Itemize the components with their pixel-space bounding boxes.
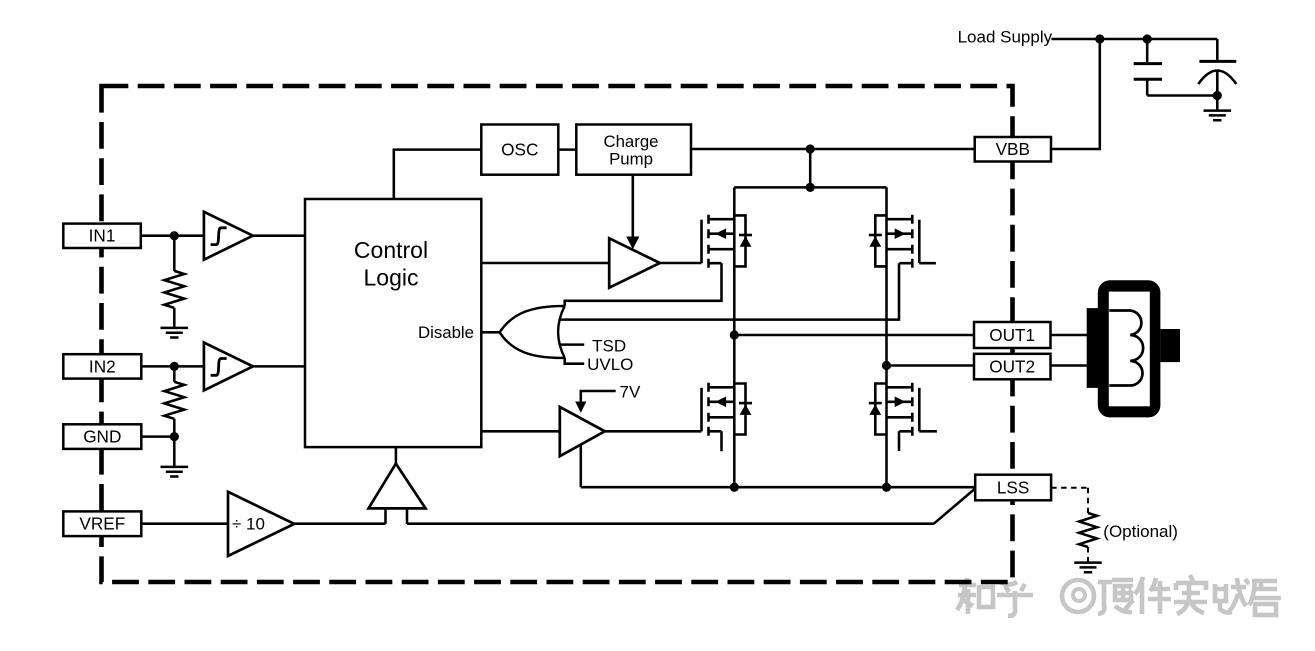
svg-text:VREF: VREF xyxy=(79,514,125,534)
svg-text:GND: GND xyxy=(83,427,121,447)
svg-text:Load Supply: Load Supply xyxy=(958,28,1053,47)
svg-text:UVLO: UVLO xyxy=(587,355,633,374)
svg-text:(Optional): (Optional) xyxy=(1103,522,1178,541)
svg-text:÷ 10: ÷ 10 xyxy=(232,515,265,534)
svg-text:VBB: VBB xyxy=(996,139,1030,159)
svg-text:IN1: IN1 xyxy=(89,226,116,246)
svg-text:Pump: Pump xyxy=(609,149,653,168)
svg-text:LSS: LSS xyxy=(997,478,1030,498)
svg-text:IN2: IN2 xyxy=(89,356,116,376)
svg-text:TSD: TSD xyxy=(592,336,626,355)
svg-text:Charge: Charge xyxy=(603,132,658,151)
svg-text:OSC: OSC xyxy=(501,139,538,159)
svg-text:Disable: Disable xyxy=(418,323,474,342)
svg-text:OUT2: OUT2 xyxy=(989,357,1035,377)
svg-text:OUT1: OUT1 xyxy=(989,325,1035,345)
svg-text:7V: 7V xyxy=(620,383,641,402)
svg-text:Logic: Logic xyxy=(364,264,419,290)
svg-text:Control: Control xyxy=(354,237,428,263)
